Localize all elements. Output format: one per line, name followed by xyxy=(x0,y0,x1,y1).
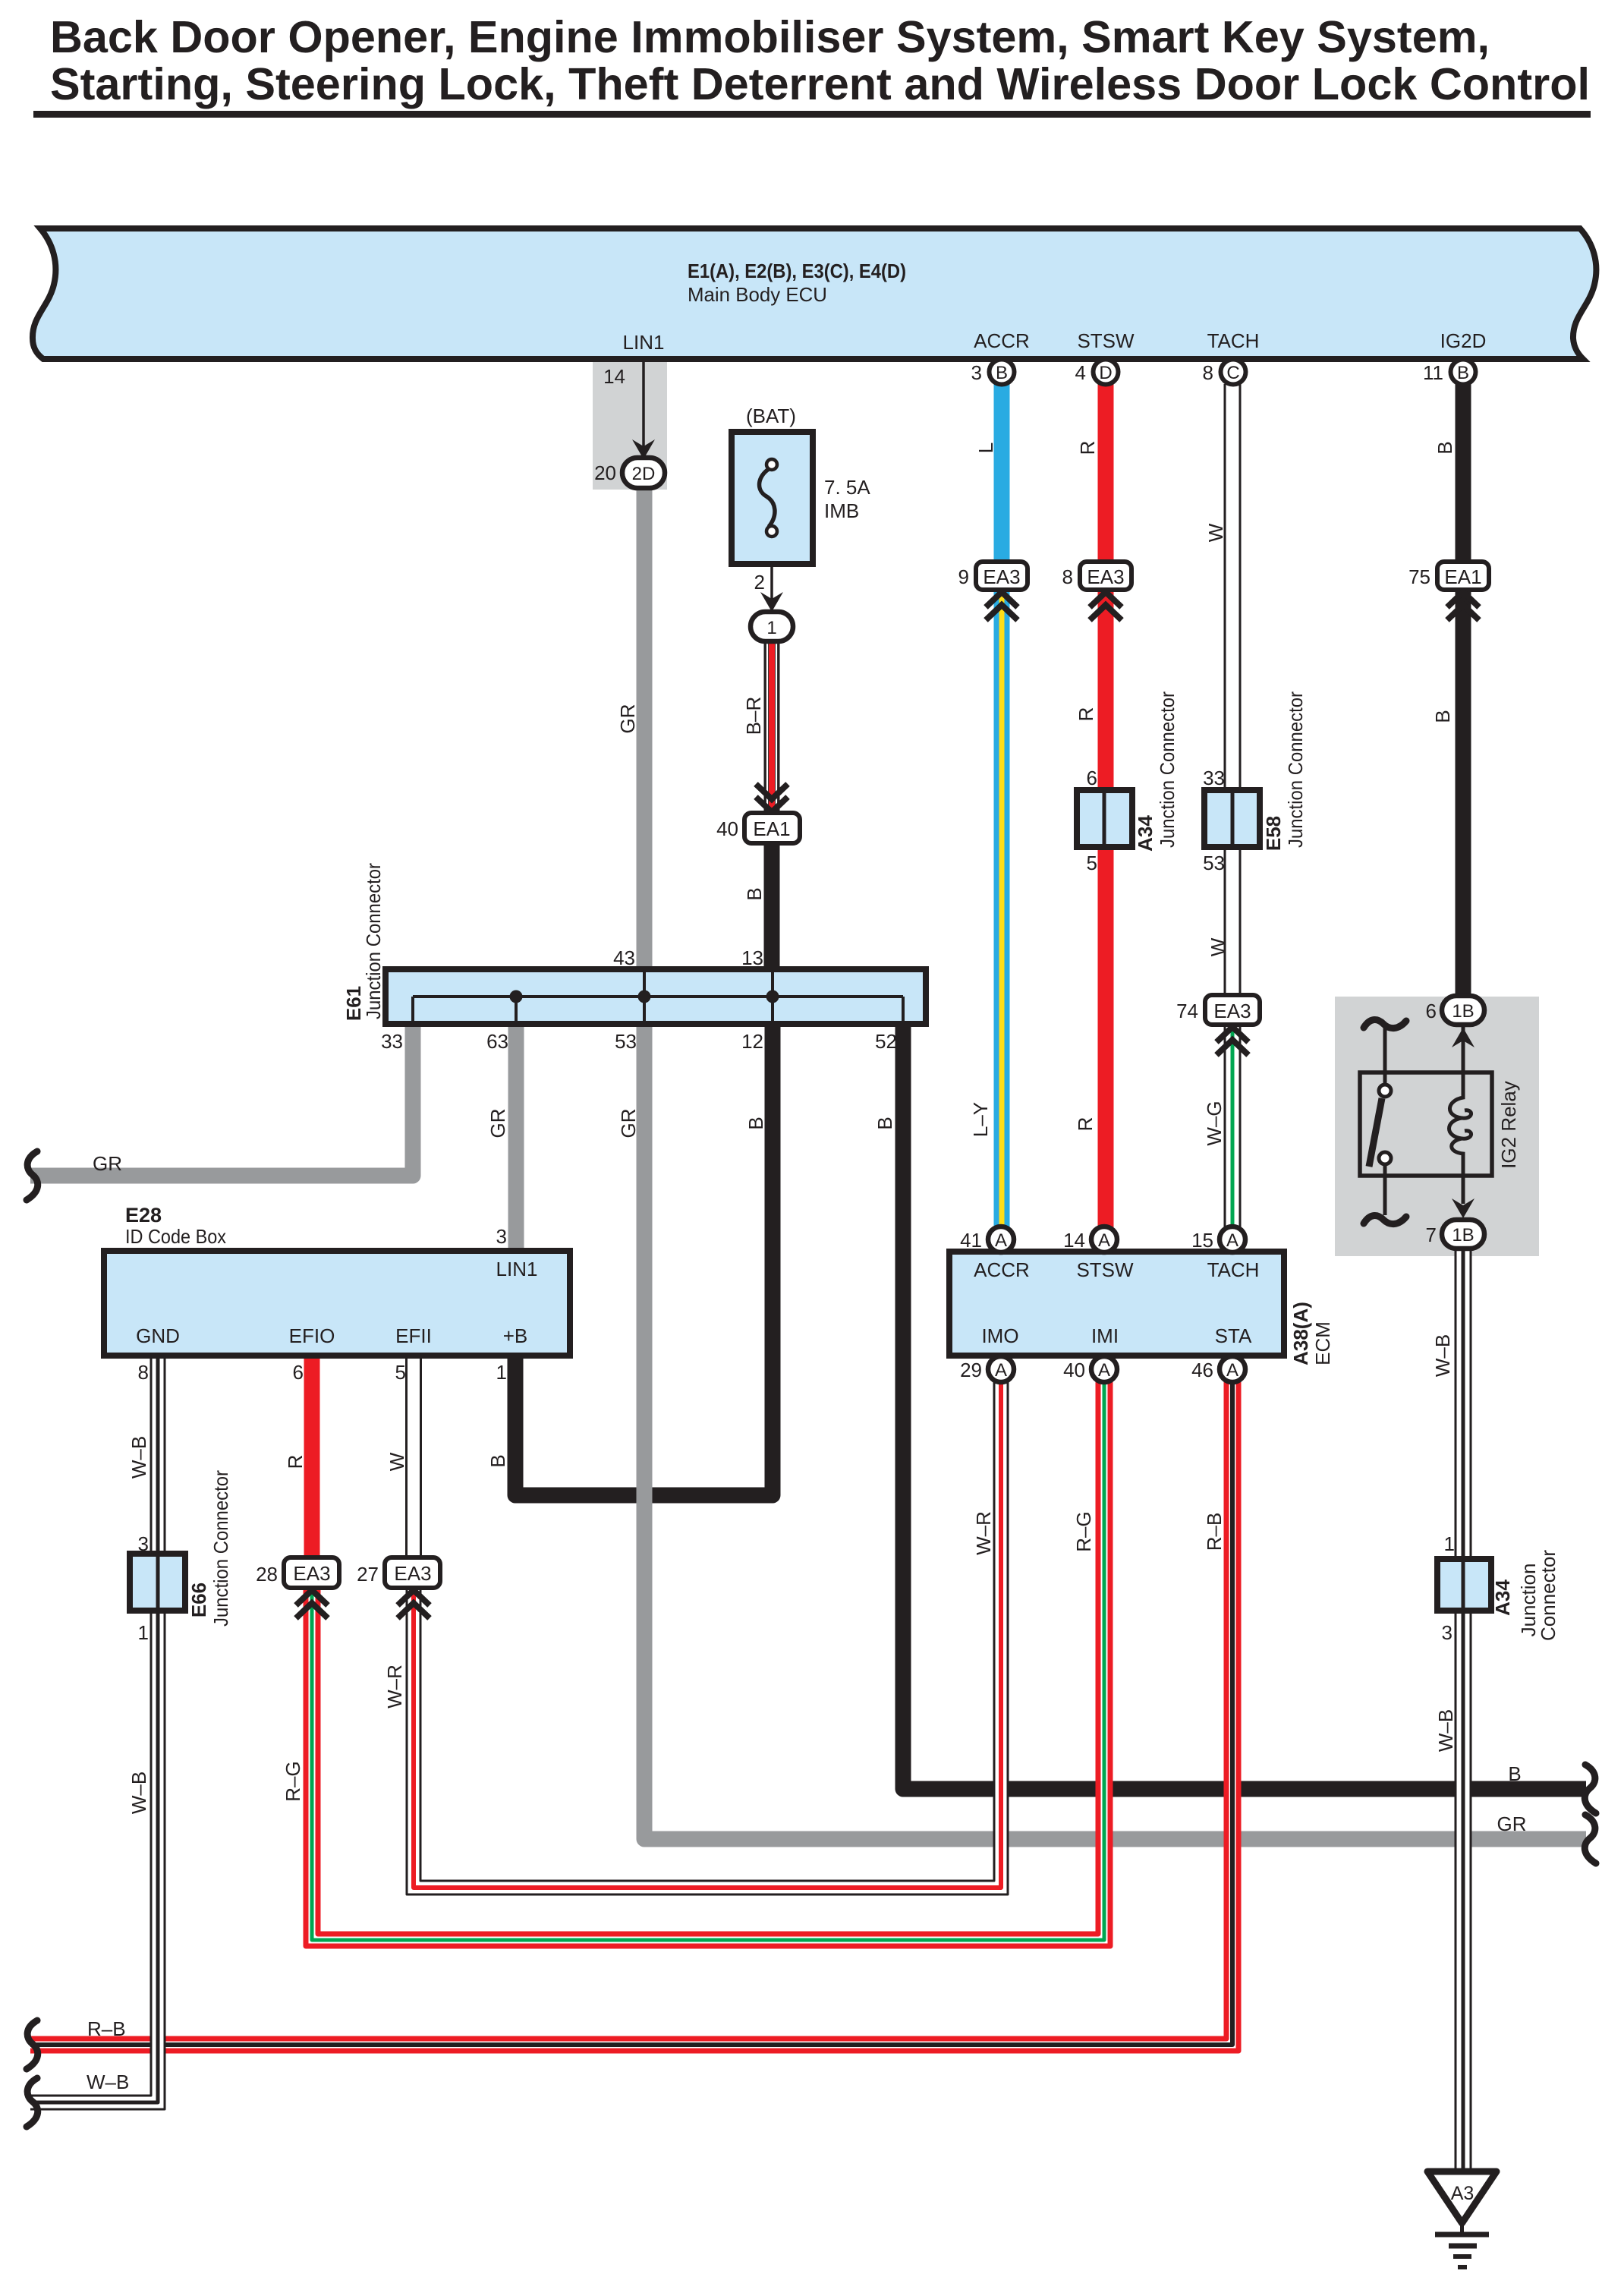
junction connector A34 (right column) xyxy=(1437,1532,1559,1644)
junction connector E66 xyxy=(130,1470,232,1644)
svg-text:Junction Connector: Junction Connector xyxy=(362,863,385,1019)
svg-text:EA3: EA3 xyxy=(1087,565,1124,588)
chevron arrows from 75 EA1 xyxy=(1447,592,1479,620)
svg-text:29: 29 xyxy=(960,1359,982,1381)
svg-text:GR: GR xyxy=(616,704,639,734)
svg-text:5: 5 xyxy=(395,1361,406,1384)
svg-text:EA3: EA3 xyxy=(293,1562,330,1585)
svg-text:13: 13 xyxy=(741,946,763,969)
title xyxy=(33,12,1591,118)
svg-text:IMO: IMO xyxy=(981,1324,1018,1347)
svg-text:1B: 1B xyxy=(1452,1225,1474,1246)
svg-text:A34: A34 xyxy=(1134,815,1157,852)
svg-text:GND: GND xyxy=(136,1324,180,1347)
svg-text:R–B: R–B xyxy=(87,2017,126,2040)
break squiggle left R-B xyxy=(27,2020,38,2069)
ECU pin 11(B) IG2D xyxy=(1423,360,1476,385)
svg-text:27: 27 xyxy=(357,1563,379,1586)
svg-text:W: W xyxy=(1204,523,1227,542)
svg-text:W–G: W–G xyxy=(1203,1101,1226,1145)
svg-text:3: 3 xyxy=(971,361,982,384)
svg-text:A34: A34 xyxy=(1491,1579,1514,1616)
break squiggle right GR xyxy=(1585,1815,1596,1863)
svg-text:1: 1 xyxy=(1444,1532,1455,1555)
svg-text:B–R: B–R xyxy=(742,697,765,735)
svg-text:1: 1 xyxy=(766,618,776,638)
wire B black: ECU IG2D to EA1 xyxy=(1456,384,1471,562)
svg-text:E1(A), E2(B), E3(C), E4(D): E1(A), E2(B), E3(C), E4(D) xyxy=(688,260,906,282)
svg-text:B: B xyxy=(1431,710,1454,723)
IG2 relay shaded area xyxy=(1335,997,1539,1256)
svg-text:LIN1: LIN1 xyxy=(496,1258,538,1280)
wire R-B: ECM STA down-left to left break xyxy=(30,1382,1238,2051)
connector box 9 EA3 xyxy=(958,562,1028,590)
wire W-G: 74 EA3 to ECM TACH xyxy=(1225,1025,1240,1227)
connector box 75 EA1 xyxy=(1408,562,1489,590)
svg-text:GR: GR xyxy=(93,1152,122,1175)
wire W-R: ECM IMO down-left-up to 27 EA3 xyxy=(407,1382,1008,1894)
ECM pin 40(A) IMI xyxy=(1063,1356,1117,1382)
relay oval 7(1B) xyxy=(1426,1220,1484,1249)
svg-text:IG2 Relay: IG2 Relay xyxy=(1497,1081,1520,1169)
svg-text:EA1: EA1 xyxy=(1444,565,1481,588)
relay coil xyxy=(1449,1025,1471,1204)
svg-text:R: R xyxy=(1074,1117,1097,1132)
svg-text:ECM: ECM xyxy=(1311,1321,1334,1365)
break squiggle right B xyxy=(1585,1765,1596,1813)
svg-text:Junction Connector: Junction Connector xyxy=(1156,691,1179,848)
break squiggle left GR xyxy=(27,1151,38,1200)
svg-text:R–G: R–G xyxy=(282,1761,304,1801)
svg-text:C: C xyxy=(1226,363,1239,383)
arrow down into 7(1B) xyxy=(1452,1198,1475,1218)
svg-text:14: 14 xyxy=(1063,1229,1085,1252)
svg-text:EA3: EA3 xyxy=(1213,1000,1251,1022)
svg-text:W: W xyxy=(386,1452,408,1471)
svg-text:20: 20 xyxy=(594,461,616,484)
svg-text:B: B xyxy=(873,1116,896,1129)
fuse pin 2 stem and arrow xyxy=(754,564,783,612)
svg-text:A: A xyxy=(1226,1360,1238,1381)
svg-text:L–Y: L–Y xyxy=(969,1102,992,1137)
svg-text:3: 3 xyxy=(1442,1621,1452,1644)
chevron arrows into 40 EA1 xyxy=(756,784,788,812)
chevron arrows from 27 EA3 xyxy=(398,1590,430,1618)
svg-text:EA3: EA3 xyxy=(394,1562,431,1585)
ECM pin 41(A) ACCR xyxy=(960,1227,1014,1252)
IG2 relay internals xyxy=(1360,1020,1520,1224)
ECU pin 3(B) ACCR xyxy=(971,360,1015,385)
ID Code Box E28 xyxy=(104,1204,570,1384)
wire R-G: ECM IMI down-left-up to 28 EA3 xyxy=(306,1382,1110,1946)
gray band behind LIN1 pin xyxy=(593,361,667,490)
svg-text:75: 75 xyxy=(1408,565,1430,588)
svg-text:Back Door Opener, Engine Immob: Back Door Opener, Engine Immobiliser Sys… xyxy=(50,12,1490,62)
svg-text:B: B xyxy=(743,887,766,900)
relay oval 6(1B) xyxy=(1426,996,1484,1025)
connector oval 1 xyxy=(751,612,793,641)
svg-text:W–B: W–B xyxy=(87,2071,129,2093)
svg-text:W–B: W–B xyxy=(1434,1709,1457,1752)
svg-text:B: B xyxy=(1457,363,1469,383)
svg-text:GR: GR xyxy=(617,1109,640,1138)
svg-text:LIN1: LIN1 xyxy=(623,331,665,354)
connector box 27 EA3 xyxy=(357,1557,440,1588)
wire B +B loop: E61 pin12 to E28 +B xyxy=(515,1024,773,1495)
wire W-B: relay 1B oval through A34 to ground A3 xyxy=(1456,1249,1471,2171)
wire B-R: fuse oval to 40 EA1 xyxy=(767,641,776,813)
wire R red: EA3 through A34 to ECM STSW xyxy=(1098,591,1114,1227)
svg-text:Connector: Connector xyxy=(1537,1550,1559,1641)
junction connector E61 xyxy=(342,863,926,1053)
junction connector E58 (TACH column) xyxy=(1203,691,1307,874)
chevron arrows from 74 EA3 xyxy=(1216,1027,1248,1055)
svg-text:W–B: W–B xyxy=(127,1772,150,1814)
svg-text:+B: +B xyxy=(503,1324,528,1347)
svg-text:A38(A): A38(A) xyxy=(1289,1302,1312,1365)
svg-text:B: B xyxy=(744,1116,767,1129)
svg-text:W: W xyxy=(1207,937,1229,956)
svg-text:33: 33 xyxy=(381,1030,403,1053)
svg-text:ACCR: ACCR xyxy=(974,329,1030,352)
svg-text:40: 40 xyxy=(1063,1359,1085,1381)
svg-text:A: A xyxy=(995,1230,1007,1251)
svg-text:TACH: TACH xyxy=(1207,329,1260,352)
ECM pin 15(A) TACH xyxy=(1191,1227,1245,1252)
fuse 7.5A IMB (BAT) xyxy=(732,405,870,564)
svg-text:41: 41 xyxy=(960,1229,982,1252)
svg-text:W–R: W–R xyxy=(972,1511,995,1555)
wire L blue: ECU ACCR to EA3 xyxy=(994,384,1010,562)
svg-text:W–B: W–B xyxy=(1431,1334,1454,1377)
svg-text:43: 43 xyxy=(613,946,635,969)
svg-text:28: 28 xyxy=(256,1563,278,1586)
junction connector A34 (STSW column) xyxy=(1077,691,1179,874)
svg-text:14: 14 xyxy=(603,365,625,388)
ECU pin 14 LIN1 stem and arrow xyxy=(603,361,655,459)
wire W-B: E28 GND through E66 down-left to left break xyxy=(30,1356,165,2109)
svg-text:D: D xyxy=(1099,363,1112,383)
wire R red: ECU STSW to EA3 xyxy=(1098,384,1114,562)
wire B black: 40 EA1 to E61 pin13 xyxy=(764,843,780,969)
svg-text:R: R xyxy=(284,1455,307,1469)
svg-text:74: 74 xyxy=(1176,1000,1198,1022)
svg-text:6: 6 xyxy=(1087,767,1097,789)
svg-text:EFII: EFII xyxy=(395,1324,432,1347)
svg-text:A: A xyxy=(1098,1360,1110,1381)
svg-text:53: 53 xyxy=(615,1030,637,1053)
svg-text:15: 15 xyxy=(1191,1229,1213,1252)
svg-text:46: 46 xyxy=(1191,1359,1213,1381)
svg-text:6: 6 xyxy=(1426,1000,1437,1022)
svg-text:R–B: R–B xyxy=(1203,1513,1226,1551)
svg-text:STA: STA xyxy=(1215,1324,1252,1347)
svg-text:11: 11 xyxy=(1423,361,1443,384)
svg-text:Starting, Steering Lock, Theft: Starting, Steering Lock, Theft Deterrent… xyxy=(50,59,1590,109)
svg-text:STSW: STSW xyxy=(1077,329,1135,352)
svg-text:A: A xyxy=(1098,1230,1110,1251)
svg-text:1B: 1B xyxy=(1452,1001,1474,1022)
wire B: E61 pin52 down to right break xyxy=(903,1024,1586,1789)
svg-text:B: B xyxy=(996,363,1008,383)
svg-text:1: 1 xyxy=(496,1361,507,1384)
svg-text:GR: GR xyxy=(486,1109,509,1138)
wire GR main: 2D oval down through E61 to right break xyxy=(644,488,1586,1839)
svg-text:B: B xyxy=(1434,441,1456,454)
chevron arrows from 28 EA3 xyxy=(296,1590,328,1618)
svg-text:STSW: STSW xyxy=(1076,1258,1134,1281)
svg-text:R: R xyxy=(1075,707,1097,722)
svg-text:ACCR: ACCR xyxy=(974,1258,1030,1281)
svg-text:IMI: IMI xyxy=(1091,1324,1119,1347)
svg-text:12: 12 xyxy=(741,1030,763,1053)
Main Body ECU box E1(A) E2(B) E3(C) E4(D) xyxy=(33,228,1596,359)
svg-text:R–G: R–G xyxy=(1072,1511,1095,1551)
svg-text:40: 40 xyxy=(716,817,738,840)
svg-text:9: 9 xyxy=(958,565,969,588)
svg-text:63: 63 xyxy=(486,1030,508,1053)
wire GR: E61 pin63 to E28 LIN1 xyxy=(508,1024,524,1251)
svg-text:IMB: IMB xyxy=(824,499,859,522)
svg-text:EFIO: EFIO xyxy=(289,1324,335,1347)
ground A3 xyxy=(1427,2171,1497,2267)
svg-text:A: A xyxy=(1226,1230,1238,1251)
svg-text:4: 4 xyxy=(1075,361,1086,384)
svg-text:L: L xyxy=(974,442,997,453)
svg-text:GR: GR xyxy=(1497,1812,1527,1835)
svg-text:W–B: W–B xyxy=(127,1436,150,1479)
svg-text:R: R xyxy=(1076,441,1099,455)
svg-text:53: 53 xyxy=(1203,852,1225,874)
svg-text:7. 5A: 7. 5A xyxy=(824,476,870,499)
svg-text:3: 3 xyxy=(138,1532,149,1555)
svg-text:A3: A3 xyxy=(1451,2183,1475,2204)
ECU pin 8(C) TACH xyxy=(1203,360,1246,385)
ECM pin 46(A) STA xyxy=(1191,1356,1245,1382)
svg-text:3: 3 xyxy=(496,1225,507,1248)
ECM pin 14(A) STSW xyxy=(1063,1227,1117,1252)
svg-text:Junction Connector: Junction Connector xyxy=(209,1470,232,1627)
connector box 28 EA3 xyxy=(256,1557,339,1588)
svg-text:(BAT): (BAT) xyxy=(746,405,796,427)
svg-text:W–R: W–R xyxy=(383,1664,406,1709)
svg-text:2: 2 xyxy=(754,571,765,594)
svg-text:1: 1 xyxy=(138,1621,149,1644)
svg-text:6: 6 xyxy=(293,1361,304,1384)
svg-text:8: 8 xyxy=(1062,565,1073,588)
arrow up into 6(1B) xyxy=(1452,1028,1475,1047)
svg-text:EA1: EA1 xyxy=(753,817,790,840)
svg-text:5: 5 xyxy=(1087,852,1097,874)
svg-text:8: 8 xyxy=(138,1361,149,1384)
break squiggle left W-B xyxy=(27,2078,38,2127)
svg-text:E66: E66 xyxy=(187,1583,210,1617)
svg-text:A: A xyxy=(995,1360,1007,1381)
svg-text:Junction Connector: Junction Connector xyxy=(1284,691,1307,848)
ECM box A38(A) xyxy=(949,1252,1334,1365)
wire W: E28 EFII to 27 EA3 xyxy=(407,1356,421,1557)
relay switch xyxy=(1364,1020,1406,1028)
svg-text:52: 52 xyxy=(875,1030,897,1053)
wire L-Y: EA3 to ECM ACCR xyxy=(994,591,1010,1227)
ECU pin 4(D) STSW xyxy=(1075,360,1119,385)
svg-text:E58: E58 xyxy=(1262,816,1285,851)
svg-text:7: 7 xyxy=(1426,1224,1437,1246)
svg-text:Main Body ECU: Main Body ECU xyxy=(688,283,827,306)
connector oval 20(2D) xyxy=(594,458,665,488)
chevron arrows from 9 EA3 xyxy=(986,592,1018,620)
svg-text:B: B xyxy=(1508,1762,1521,1785)
svg-text:8: 8 xyxy=(1203,361,1213,384)
connector box 8 EA3 xyxy=(1062,562,1131,590)
svg-text:IG2D: IG2D xyxy=(1440,329,1487,352)
svg-text:B: B xyxy=(486,1454,509,1467)
svg-text:33: 33 xyxy=(1203,767,1225,789)
chevron arrows from 8 EA3 xyxy=(1090,592,1122,620)
svg-text:TACH: TACH xyxy=(1207,1258,1260,1281)
wire R red: E28 EFIO to 28 EA3 xyxy=(304,1356,320,1557)
svg-text:2D: 2D xyxy=(632,464,656,484)
connector box 74 EA3 xyxy=(1176,995,1260,1025)
svg-text:E28: E28 xyxy=(125,1204,162,1227)
wire B black: EA1 to relay 1B oval xyxy=(1456,591,1471,997)
wire W: ECU TACH through E58 to 74 EA3 xyxy=(1225,384,1240,995)
svg-text:ID Code Box: ID Code Box xyxy=(125,1225,226,1248)
wire GR: E61 pin33 to left break xyxy=(30,1024,413,1176)
connector box 40 EA1 xyxy=(716,813,800,843)
ECM pin 29(A) IMO xyxy=(960,1356,1014,1382)
svg-text:EA3: EA3 xyxy=(983,565,1020,588)
